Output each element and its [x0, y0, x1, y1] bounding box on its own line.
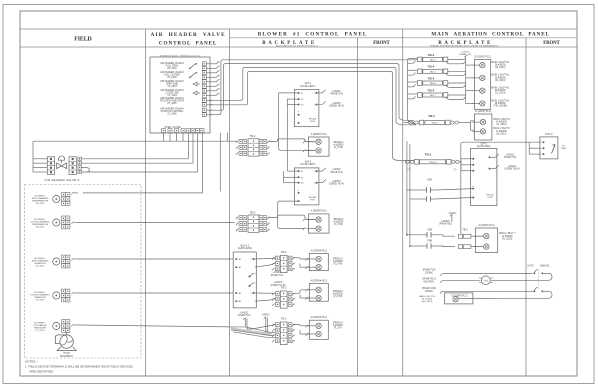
valve mini terminal column: [78, 157, 81, 174]
svg-text:AI (DISP) PLC): AI (DISP) PLC): [478, 224, 494, 227]
PLC input box AI-3 east labels: [333, 258, 344, 265]
PLC input box AI-5 label: [310, 316, 327, 319]
svg-text:NOTES :–: NOTES :–: [25, 360, 39, 364]
TB-4 row 1 west wires: [408, 58, 418, 63]
svg-text:TB-2: TB-2: [250, 134, 256, 138]
PLC input box AI-2 input terminals: [307, 217, 322, 231]
field device BLOWER #1 inlet vibration label: [32, 258, 49, 268]
field device BLOWER #1 outlet vibration wires: [72, 292, 79, 294]
svg-text:A (DISP)# PLC): A (DISP)# PLC): [310, 279, 327, 282]
valve body bowtie: [57, 163, 67, 169]
relay contact CR2 b: [410, 196, 473, 202]
column divider MAIN AERATION BACKPLATE | FRONT: [525, 38, 527, 376]
PLC input box AI-1 east labels: [333, 142, 344, 149]
air header valve switch row 2 label: [160, 71, 184, 79]
wire panel to valve 2: [192, 133, 194, 163]
svg-text:R_2Y86: R_2Y86: [334, 147, 343, 149]
svg-text:(PNAB 7V4): (PNAB 7V4): [271, 274, 284, 277]
field device BLOWER #1 outlet vibration terminal stack: [62, 289, 70, 302]
relay contact CR2 label: [427, 178, 433, 181]
svg-text:+24VDC: +24VDC: [240, 312, 249, 314]
svg-text:(PNAB 7V4): (PNAB 7V4): [423, 269, 436, 272]
svg-text:AI #00000: AI #00000: [496, 121, 507, 124]
svg-text:TBD-6: TBD-6: [429, 83, 436, 85]
PLC AI box main 2 box: [475, 228, 497, 253]
svg-text:VE_2012: VE_2012: [35, 266, 45, 268]
svg-text:(GATE-3204): (GATE-3204): [238, 247, 252, 250]
POT-2 value label: [561, 146, 566, 151]
vertical wire V2 to TB-2 number1: [227, 133, 229, 141]
svg-text:A (DISP)# PLC): A (DISP)# PLC): [310, 316, 327, 319]
svg-text:MANUAL: MANUAL: [540, 265, 550, 268]
svg-text:(HS_2051): (HS_2051): [422, 301, 433, 303]
terminal strip TB-2 AI2 label: [462, 229, 468, 232]
bottom terminal row right group: [187, 129, 205, 133]
svg-text:NEUTRAL: NEUTRAL: [424, 280, 435, 283]
field G2 wire to TB-2 #2: [78, 222, 235, 224]
PLC input box AI-4 box: [309, 284, 328, 302]
column divider BLOWER #1 | MAIN AERATION panel: [402, 29, 404, 376]
svg-text:MAIN AERATION CONTROL PANEL: MAIN AERATION CONTROL PANEL: [431, 32, 549, 38]
svg-text:TB-2: TB-2: [250, 210, 256, 214]
PLC input box AI-3 input terminals: [307, 256, 321, 270]
svg-text:+24VDC: +24VDC: [274, 282, 283, 284]
TB-4 row 3 west wires: [408, 82, 418, 87]
PLC input box AI-3 label: [310, 249, 327, 252]
SLP-3 internal text: [486, 195, 494, 200]
selector contact rung1: [533, 269, 548, 274]
svg-text:R_2Y08: R_2Y08: [334, 224, 343, 226]
PLC input box AI-2 label: [311, 210, 327, 213]
-24VDC drop label: [261, 314, 270, 316]
PLC input box AI-4 label: [310, 279, 327, 282]
wire +24VDC to TB-2 #5 row1: [247, 325, 276, 329]
selector mechanical link dashed: [537, 270, 539, 290]
blower scroll symbol: [55, 335, 76, 351]
field device BLOWER #1 inlet bearing terminal stack: [62, 193, 70, 206]
svg-text:(GATE-3000): (GATE-3000): [477, 145, 491, 148]
field device BLOWER #1 outlet bearing sensor circle: [53, 219, 60, 226]
SLP-3 output labels: [504, 154, 520, 170]
rung 1 label: [423, 269, 436, 275]
svg-text:(CMDB: NO-4): (CMDB: NO-4): [329, 184, 344, 186]
command arrow symbol row 4: [193, 91, 200, 95]
hook pair at AI box 3: [300, 258, 309, 268]
svg-text:POR: POR: [310, 121, 315, 123]
svg-text:A (DISP# PLC): A (DISP# PLC): [311, 133, 327, 136]
terminal strip TB-4 row 4 label: [428, 88, 435, 92]
svg-text:BACKPLATE LAYOUT SHOWN FOR BLV: BACKPLATE LAYOUT SHOWN FOR BLVR #1: [276, 45, 319, 48]
svg-text:O: O: [314, 93, 316, 95]
+24VDC top label main: [459, 52, 471, 57]
relay contact lower 1: [406, 232, 455, 238]
air header valve positioner label 2: [160, 107, 184, 115]
svg-text:CONTROL PANEL: CONTROL PANEL: [159, 40, 217, 46]
svg-text:(PNAB 7V4): (PNAB 7V4): [504, 156, 517, 159]
op-amp SLP-2 (GATE-VENT) label: [300, 160, 315, 166]
PLC AI box main box: [474, 114, 492, 140]
field device BLOWER #1 inlet bearing sensor circle: [53, 195, 60, 202]
field G5 wire to TB-2 #5: [78, 325, 230, 327]
svg-text:BLOWER #1 CONTROL PANEL: BLOWER #1 CONTROL PANEL: [258, 32, 367, 38]
svg-text:TBD-5: TBD-5: [429, 71, 436, 73]
BLVR-1 internal switch 1: [249, 274, 256, 278]
svg-text:PT_2014: PT_2014: [36, 330, 46, 332]
svg-text:TB-2: TB-2: [281, 317, 287, 321]
terminal strip TB-4 row 2: [417, 69, 447, 74]
svg-text:TBD-4: TBD-4: [429, 60, 436, 62]
svg-text:120VAC: 120VAC: [425, 272, 434, 275]
rung 2 wire: [440, 280, 549, 283]
TB-4 row 4 tap to DI circle: [466, 103, 475, 105]
BLVR-1 internal switch 2: [249, 283, 256, 287]
svg-text:(GATE-VENT): (GATE-VENT): [300, 85, 315, 88]
limit switch symbol row 1: [189, 63, 197, 69]
relay contact CR2 a: [407, 187, 473, 193]
PLC input box AI-5 box: [309, 320, 328, 339]
column divider BLOWER #1 BACKPLATE | FRONT: [357, 38, 359, 376]
air panel top terminal numbering text: [160, 55, 201, 58]
svg-text:O: O: [314, 171, 316, 173]
TB-4 row 2 west wires: [408, 70, 418, 75]
wire B long to main TB-2 AI upper: [207, 64, 415, 121]
air header valve switch row 4 label: [160, 89, 184, 97]
svg-text:(PNAB TB-2): (PNAB TB-2): [422, 277, 436, 280]
field device BLOWER #1 discharge pressure sensor circle: [53, 322, 60, 329]
hook pair at AI box 4: [300, 289, 309, 299]
terminal strip TB-2 AI label: [428, 114, 435, 118]
field device BLOWER #1 inlet vibration wires: [72, 258, 79, 260]
main panel right bus: [465, 57, 467, 104]
DI DISP PLC box rung3: [445, 293, 473, 304]
wires TB-2 AI2 to AI box3: [471, 236, 482, 246]
PLC input box AI-2 box: [309, 214, 330, 233]
wire panel down to field G1: [202, 133, 204, 193]
svg-text:MAIN L/ BLVT 7: MAIN L/ BLVT 7: [499, 232, 516, 235]
svg-text:(PNAB 7V4): (PNAB 7V4): [238, 314, 251, 317]
PLC DI box main east labels: [491, 61, 510, 108]
air panel lower terminal hooks: [210, 100, 213, 117]
svg-text:+24VDC: +24VDC: [332, 169, 341, 171]
svg-text:TB-4: TB-4: [428, 76, 435, 80]
svg-text:AI (DISP) PLC): AI (DISP) PLC): [475, 110, 491, 113]
op-amp SLP-3 box: [471, 148, 497, 205]
TB-4 row 3 east wires: [446, 83, 466, 87]
rung 3 label: [422, 287, 436, 293]
relay contact lower 2: [409, 243, 455, 249]
terminal strip TB-2 AI2 row2: [459, 245, 471, 249]
transducer BLVR-1 box: [233, 252, 256, 308]
terminal block TB-2 #1 label: [250, 134, 256, 138]
wire TB-2 #3 to AI box 3: [293, 258, 310, 259]
svg-text:VE_2013: VE_2013: [35, 300, 45, 302]
svg-text:(PNAB 7V4): (PNAB 7V4): [459, 53, 471, 56]
SLP-3 output switches: [489, 154, 499, 170]
op-amp SLP-1 (GATE-VENT) label: [300, 82, 315, 88]
column divider FIELD | AIR HEADER VALVE panel: [145, 29, 147, 376]
wire C long to main TB-2 AI lower: [207, 67, 417, 124]
header band top line: [20, 28, 577, 30]
POT-2 feed vertical taps: [529, 142, 541, 154]
svg-text:TB-2: TB-2: [281, 286, 287, 290]
hook pair at AI box 5: [300, 325, 309, 336]
PLC input box AI-2 east labels: [333, 219, 344, 226]
svg-text:+24VDC: +24VDC: [441, 221, 450, 223]
svg-text:TERMINAL STRIP AND BACKPLATE L: TERMINAL STRIP AND BACKPLATE LAYOUT SHOW…: [430, 45, 499, 48]
svg-text:(DI_2012): (DI_2012): [495, 67, 506, 69]
PLC input box AI-4 input terminals: [307, 287, 321, 301]
wire D long to main TB-2 strip 2: [207, 71, 415, 160]
TB-2 AI west twisted pair: [404, 121, 420, 124]
field device BLOWER #1 outlet vibration label: [30, 292, 49, 302]
wire TB-2 #5 to AI box 5: [293, 325, 310, 326]
column divider AIR HEADER VALVE | BLOWER #1 panel: [229, 29, 231, 376]
svg-text:POR: POR: [310, 199, 315, 201]
air panel terminal stub wires with hooks: [207, 62, 220, 96]
terminal strip TB-4 row 3: [417, 81, 447, 86]
svg-text:(AI_2018): (AI_2018): [502, 237, 512, 240]
field G3 wire to BLVR-1: [78, 258, 233, 260]
op-amp SLP-2 (GATE-VENT) box: [294, 168, 319, 205]
svg-text:YS_2004: YS_2004: [167, 95, 177, 97]
terminal strip TB-4 row 3 label: [428, 76, 435, 80]
vertical wire V1 below panel: [219, 133, 221, 192]
+24VDC PNAB label mid: [439, 221, 452, 226]
svg-text:AIR HEADER VALVE #: AIR HEADER VALVE #: [45, 178, 80, 182]
TB-4 row 1 tap to DI circle: [466, 64, 475, 66]
svg-text:(AI_2010): (AI_2010): [496, 123, 506, 126]
PLC AI box main 2 east labels: [499, 232, 516, 240]
svg-text:TB-4: TB-4: [428, 65, 435, 69]
rung 1 wire: [440, 273, 533, 276]
svg-text:MAIN L/ BLVT #1: MAIN L/ BLVT #1: [491, 61, 510, 64]
TB-4 row 2 tap to DI circle: [466, 77, 475, 79]
selector labels AUTO MANUAL: [527, 265, 550, 268]
terminal strip TB-4 row 1: [417, 57, 447, 62]
PLC DI box main input terminals: [472, 62, 485, 106]
rung3 west label: [419, 295, 435, 303]
svg-text:120VAC: 120VAC: [425, 290, 434, 293]
field device BLOWER #1 discharge pressure label: [33, 323, 47, 333]
BLVR-1 terminals: [235, 258, 254, 303]
svg-text:(TRI_2015B): (TRI_2015B): [494, 106, 508, 108]
TB-4 row 4 west wires: [408, 94, 418, 99]
svg-text:+24VDC: +24VDC: [332, 103, 341, 105]
svg-text:AI #00000: AI #00000: [496, 130, 507, 133]
TB-4 row 4 east wires: [446, 95, 466, 99]
svg-text:TE_2010: TE_2010: [36, 203, 46, 205]
svg-text:+24VDC: +24VDC: [508, 166, 517, 168]
SLP-1 left terminal stubs: [279, 93, 299, 105]
terminal strip TB-4 row 1 label: [428, 53, 435, 57]
field device BLOWER #1 discharge pressure wires: [72, 324, 79, 326]
svg-text:O: O: [314, 105, 316, 107]
DI rung3 circle: [453, 297, 458, 302]
field device BLOWER #1 outlet bearing label: [30, 219, 49, 229]
wire A long to TB-4 row1: [207, 60, 418, 115]
svg-text:(AI_2011): (AI_2011): [496, 132, 506, 135]
selector return U rung1 to coil rung: [549, 273, 553, 280]
wire BLVR-1 to TB-2 #3 row2: [255, 263, 276, 267]
svg-text:TB-4: TB-4: [428, 53, 435, 57]
PLC input box AI-5 input terminals: [307, 323, 321, 337]
PLC AI box main 2 input terminals: [473, 234, 489, 250]
svg-text:OHM: OHM: [561, 148, 566, 150]
svg-text:+24VDC: +24VDC: [332, 91, 341, 93]
PLC input box AI-5 east labels: [333, 322, 344, 329]
svg-text:AUTO: AUTO: [527, 265, 534, 268]
op-amp SLP-1 (GATE-VENT) internal text: [309, 119, 317, 124]
PLC input box AI-1 label: [311, 133, 327, 136]
SLP-3 left terminals: [472, 158, 474, 199]
terminal strip TB-2 main2 label: [425, 153, 432, 157]
svg-text:CR2: CR2: [484, 280, 489, 282]
svg-text:TBD-10: TBD-10: [429, 162, 437, 164]
svg-text:R_2Y86: R_2Y86: [334, 264, 343, 266]
selector return U rung3 to DI input: [458, 291, 552, 298]
PLC AI box main input terminals: [472, 119, 485, 134]
svg-text:1. FIELD DEVICE TERMINALS: 1. FIELD DEVICE TERMINALS WILL BE DETERM…: [25, 365, 133, 369]
svg-text:YS_2003: YS_2003: [167, 86, 177, 88]
svg-text:TB-2: TB-2: [281, 250, 287, 254]
terminal strip TB-2 AI: [419, 120, 450, 125]
valve left terminal stack: [47, 157, 54, 175]
main panel left bus: [408, 59, 416, 124]
field device BLOWER #1 outlet bearing wires: [72, 222, 79, 224]
air header valve positioner label 1: [160, 97, 185, 105]
svg-text:+24VDC: +24VDC: [506, 154, 515, 156]
svg-text:(PNAB TB1): (PNAB TB1): [439, 223, 452, 226]
terminal block TB-2 #5 label: [281, 317, 287, 321]
svg-text:ZS_2001: ZS_2001: [167, 68, 177, 70]
+24VDC drop label left: [238, 312, 251, 317]
svg-text:(CI_2014): (CI_2014): [495, 93, 506, 95]
valve east wire row1: [81, 158, 188, 160]
wire panel to valve 3: [197, 133, 199, 172]
svg-text:TBD-2: TBD-2: [431, 123, 438, 125]
+24VDC label mid: [448, 213, 457, 222]
terminal block TB-2 #3 label: [281, 250, 287, 254]
terminal strip TB-4 row 2 label: [428, 65, 435, 69]
svg-text:SLP-3: SLP-3: [480, 143, 487, 145]
terminal block TB-2 #2 label: [250, 210, 256, 214]
valve east wire row2: [81, 162, 193, 164]
svg-text:FRONT: FRONT: [543, 41, 560, 46]
SLP-2 bottom wire to AI circle2 row B: [278, 201, 305, 228]
PLC DI box main label: [474, 55, 491, 58]
terminal block TB-2 #2: [236, 215, 270, 232]
svg-text:ZT_2005: ZT_2005: [167, 103, 177, 105]
valve right terminal stack: [69, 157, 76, 175]
SLP-1 wire to AI circle2: [279, 93, 305, 150]
field device BLOWER #1 inlet bearing label: [32, 196, 49, 206]
wire TB-2 #1 to AI box 1: [269, 139, 314, 142]
svg-text:CR8: CR8: [427, 229, 432, 232]
svg-text:ZS_2002: ZS_2002: [167, 77, 177, 79]
svg-text:ARE IDENTIFIED.: ARE IDENTIFIED.: [30, 370, 55, 374]
transducer BLVR-1 label: [238, 244, 252, 250]
svg-text:POT-2: POT-2: [545, 133, 553, 136]
svg-text:MAIN L/ BLVT #: MAIN L/ BLVT #: [493, 127, 510, 130]
POT-2 feed wire from backplate: [461, 142, 542, 233]
TB-2 main2 east twisted pair and wires to SLP-3: [451, 159, 473, 171]
field G4 wire to BLVR-1: [78, 292, 233, 294]
svg-text:−24VDC: −24VDC: [261, 314, 270, 316]
SLP-2 output labels: [329, 169, 344, 186]
TB-4 row 2 east wires: [446, 71, 466, 75]
thick gray wire bundle: [231, 329, 272, 335]
main panel rails: [407, 141, 410, 245]
air header valve panel enclosure box: [150, 57, 210, 133]
potentiometer POT-2 box: [540, 137, 558, 159]
svg-text:A (DISP)# PLC): A (DISP)# PLC): [310, 249, 327, 252]
svg-text:TB-2: TB-2: [428, 114, 435, 118]
air header valve switch row 3 label: [160, 80, 184, 88]
TB-4 row 3 tap to DI circle: [466, 90, 475, 92]
valve actuator dome: [58, 156, 65, 163]
wire blower to stack: [66, 332, 68, 335]
rung 3 wire: [440, 291, 534, 293]
SLP-1 RS-485 daisy chain vertical: [286, 99, 288, 171]
svg-text:O: O: [314, 183, 316, 185]
terminal strip TB-2 main2: [414, 160, 451, 165]
svg-text:R_2Y08: R_2Y08: [334, 296, 343, 298]
relay coil CR2: [479, 276, 493, 285]
terminal strip TB-4 row 4: [417, 93, 447, 98]
op-amp SLP-2 (GATE-VENT) right terminals and output switches: [314, 168, 326, 185]
svg-text:MAIN L/ BLVT #1: MAIN L/ BLVT #1: [491, 87, 510, 90]
wire TB-2 #2 to AI box 2: [269, 215, 314, 219]
hook pair at AI box 2: [303, 219, 306, 230]
terminal block TB-2 #3: [272, 255, 295, 272]
PLC input box AI-3 box: [309, 254, 328, 271]
svg-text:AI #00000: AI #00000: [502, 235, 513, 238]
svg-text:MAIN L/ BLVT #: MAIN L/ BLVT #: [493, 118, 510, 121]
relay contact lower 2 label: [427, 240, 432, 243]
+24VDC bus hook: [465, 55, 468, 57]
PLC input box AI-1 input terminals: [307, 139, 322, 153]
wire panel to valve 1: [188, 133, 190, 159]
TB-2 main2 west twisted pair: [405, 160, 414, 171]
TB-4 row 1 east wires: [446, 59, 466, 63]
svg-text:AIR HEADER VALVE: AIR HEADER VALVE: [151, 32, 226, 38]
PLC AI box main east labels: [493, 118, 510, 135]
svg-text:ZY_2006: ZY_2006: [167, 113, 177, 115]
svg-text:(PNAB 7V4): (PNAB 7V4): [330, 93, 343, 96]
terminal strip TB-2 AI2 row1: [459, 234, 471, 238]
POT-2 wiper symbol: [552, 145, 556, 154]
svg-text:(GATE-VENT): (GATE-VENT): [300, 163, 315, 166]
PLC DI box main box: [474, 60, 490, 110]
rung 2 label: [422, 277, 436, 283]
op-amp SLP-3 (GATE-3000) label: [477, 143, 491, 148]
notes text: [25, 360, 133, 374]
potentiometer POT-2 label: [545, 133, 553, 136]
SLP-1 output labels: [329, 91, 344, 108]
svg-text:(2): (2): [454, 169, 457, 171]
op-amp SLP-2 (GATE-VENT) internal text: [309, 197, 317, 202]
relay contact lower 1 label: [427, 229, 432, 232]
field valve feeder wire horizontal y=141.2: [33, 140, 238, 142]
wire -24VDC drops: [264, 317, 268, 335]
open close labels: [164, 126, 181, 129]
wire +24VDC drops: [243, 318, 247, 329]
svg-text:CR8: CR8: [427, 240, 432, 243]
op-amp SLP-1 (GATE-VENT) right terminals and output switches: [314, 90, 326, 107]
header band middle line: [230, 37, 578, 39]
svg-text:MAIN L/ BLVT #1: MAIN L/ BLVT #1: [491, 99, 510, 102]
BLVR-1 output labels: [271, 272, 286, 287]
